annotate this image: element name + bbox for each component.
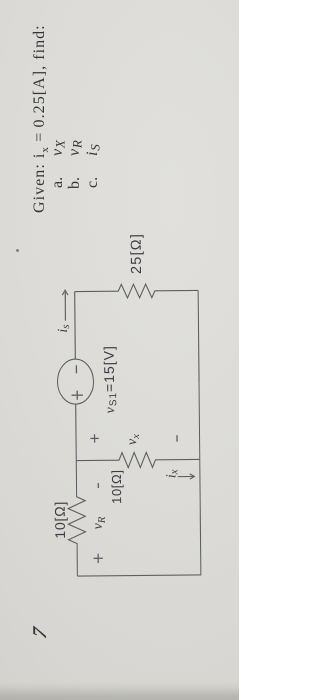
svg-text:vR: vR — [91, 516, 108, 529]
svg-text:vx: vx — [125, 434, 142, 445]
svg-text:ix: ix — [164, 469, 180, 478]
svg-text:is: is — [56, 324, 72, 332]
svg-text:vS1=15[V]: vS1=15[V] — [101, 345, 120, 413]
svg-text:10[Ω]: 10[Ω] — [52, 501, 68, 539]
svg-text:10[Ω]: 10[Ω] — [109, 469, 124, 504]
svg-text:25[Ω]: 25[Ω] — [129, 233, 145, 274]
